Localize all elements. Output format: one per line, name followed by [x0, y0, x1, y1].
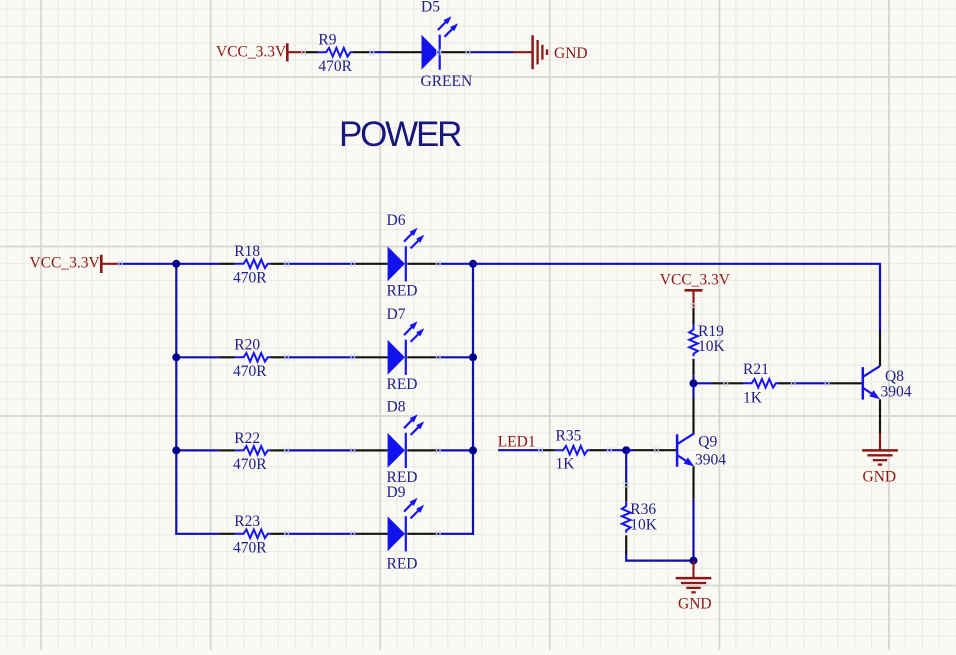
ground GND bottom — [676, 561, 712, 613]
svg-text:D8: D8 — [387, 399, 406, 416]
wire — [176, 263, 473, 265]
node right bus row 2 — [469, 353, 477, 361]
svg-text:10K: 10K — [630, 516, 658, 533]
svg-text:POWER: POWER — [339, 115, 461, 154]
resistor R19 10K — [689, 308, 725, 376]
svg-text:GND: GND — [554, 45, 588, 62]
svg-text:470R: 470R — [233, 269, 267, 286]
resistor R9 470R — [305, 32, 371, 75]
wire — [626, 450, 634, 483]
svg-text:470R: 470R — [233, 363, 267, 380]
title POWER — [339, 115, 461, 154]
svg-text:RED: RED — [387, 376, 418, 393]
svg-text:D6: D6 — [387, 212, 406, 229]
wire — [176, 356, 473, 358]
resistor R35 1K — [543, 427, 606, 472]
wire — [471, 51, 513, 53]
svg-text:RED: RED — [387, 556, 418, 573]
svg-text:470R: 470R — [318, 58, 352, 75]
wire — [176, 533, 473, 535]
power port VCC_3.3V right — [660, 272, 731, 308]
svg-text:10K: 10K — [698, 338, 726, 355]
node left bus row 1 — [172, 260, 180, 268]
svg-text:R9: R9 — [318, 32, 336, 49]
resistor R23 470R — [220, 513, 286, 556]
svg-text:470R: 470R — [233, 456, 267, 473]
wire — [370, 51, 388, 53]
svg-text:1K: 1K — [556, 456, 576, 473]
svg-text:R22: R22 — [234, 430, 260, 447]
svg-text:Q8: Q8 — [885, 368, 904, 385]
power port VCC_3.3V top — [216, 43, 305, 61]
svg-text:3904: 3904 — [695, 452, 726, 469]
svg-text:VCC_3.3V: VCC_3.3V — [30, 255, 101, 272]
wire — [176, 449, 473, 451]
svg-text:R35: R35 — [556, 427, 582, 444]
svg-text:GND: GND — [678, 595, 712, 612]
wire — [692, 383, 694, 397]
svg-text:D5: D5 — [421, 0, 440, 16]
svg-text:LED1: LED1 — [498, 433, 536, 450]
svg-text:1K: 1K — [743, 390, 763, 407]
transistor Q9 3904 — [634, 397, 726, 500]
svg-text:GREEN: GREEN — [421, 73, 473, 90]
ground GND top — [513, 35, 588, 69]
resistor R36 10K — [622, 484, 658, 555]
svg-text:RED: RED — [387, 282, 418, 299]
markers — [119, 49, 829, 537]
LED D7 RED — [355, 306, 439, 393]
svg-text:R18: R18 — [234, 243, 260, 260]
node left bus row 2 — [172, 353, 180, 361]
svg-text:D9: D9 — [387, 484, 406, 501]
svg-text:GND: GND — [863, 469, 897, 486]
wire — [118, 263, 176, 265]
LED D9 RED — [355, 484, 439, 573]
net label LED1 — [498, 433, 536, 450]
svg-text:R20: R20 — [234, 337, 260, 354]
power port VCC_3.3V left — [30, 255, 119, 273]
svg-text:D7: D7 — [387, 306, 406, 323]
LED D6 RED — [355, 212, 439, 299]
svg-text:3904: 3904 — [881, 384, 912, 401]
svg-text:VCC_3.3V: VCC_3.3V — [216, 43, 287, 60]
svg-text:Q9: Q9 — [698, 434, 717, 451]
svg-text:R23: R23 — [234, 513, 260, 530]
LED D5 GREEN — [389, 0, 473, 90]
node left bus row 3 — [172, 446, 180, 454]
wire — [498, 449, 626, 451]
resistor R22 470R — [220, 430, 286, 473]
node R35/R36/Q9 base — [622, 446, 630, 454]
transistor Q8 3904 — [829, 332, 912, 434]
wire — [694, 375, 830, 383]
svg-text:VCC_3.3V: VCC_3.3V — [660, 272, 731, 289]
wire — [473, 264, 880, 332]
wire right bus — [472, 263, 474, 535]
ground GND Q8 — [862, 434, 898, 486]
svg-text:R21: R21 — [743, 361, 769, 378]
node right bus row 1 — [469, 260, 477, 268]
wire — [626, 500, 693, 561]
resistor R18 470R — [220, 243, 286, 286]
wire left bus — [175, 263, 177, 535]
resistor R21 1K — [712, 361, 793, 407]
resistor R20 470R — [220, 337, 286, 380]
LED D8 RED — [355, 399, 439, 486]
svg-text:470R: 470R — [233, 539, 267, 556]
node emitter/R36/GND — [690, 557, 698, 565]
node R19/R21/Q9 — [690, 379, 698, 387]
node right bus row 3 — [469, 446, 477, 454]
